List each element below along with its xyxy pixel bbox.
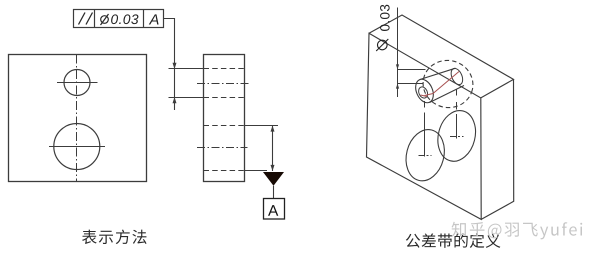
center tick upper-right hole <box>450 136 464 138</box>
parallelism symbol // <box>79 13 93 25</box>
centerline upper hole <box>197 83 249 85</box>
datum dim arrow up <box>271 126 275 132</box>
front face outline <box>367 33 482 219</box>
caption 表示方法 <box>82 230 146 245</box>
caption 公差带的定义 <box>406 233 501 248</box>
vertical centerline <box>76 55 78 182</box>
hole small (top circle) <box>64 70 90 96</box>
center tick lower-left hole <box>419 155 432 157</box>
extension line right 1 (to datum dim) <box>245 125 279 127</box>
centerline lower hole <box>197 147 248 149</box>
cylinder right end cap <box>449 67 465 87</box>
cylinder bottom side <box>430 86 465 103</box>
tolerance value 0.03 (italic) <box>111 14 138 24</box>
plate outline (front view) <box>9 55 147 182</box>
leader from frame to toleranced feature <box>164 19 175 111</box>
dimension ext line upper <box>398 69 426 71</box>
horiz centerline of small hole <box>57 82 98 84</box>
link triangle to letter box <box>273 186 275 199</box>
dim arrow up <box>396 84 399 89</box>
hidden line upper hole bottom <box>204 97 245 99</box>
leader arrow down (upper) <box>173 63 177 69</box>
hole large (bottom circle) <box>54 124 100 170</box>
actual axis (red) inside tolerance zone <box>425 72 460 96</box>
datum letter A in frame (italic) <box>149 14 159 24</box>
dim arrow down <box>396 64 399 69</box>
rotated dimension text o0.03 <box>376 5 389 51</box>
extension line right 2 (to datum dim) <box>245 170 268 172</box>
axis line lower-left hole (solid) <box>424 113 426 157</box>
watermark 知乎@羽飞yufei <box>452 222 583 240</box>
dashed hole opening ellipse <box>418 55 478 113</box>
datum letter A <box>268 205 278 216</box>
side view outline <box>204 55 245 182</box>
hidden line upper hole top <box>204 68 245 70</box>
cylinder top side <box>420 68 456 79</box>
hole ellipse upper-right <box>433 107 481 166</box>
hidden line lower hole top <box>204 125 245 127</box>
cylinder inner (far) end ellipse <box>417 86 429 100</box>
extension line upper-left 1 <box>169 68 204 70</box>
dimension line of tolerance cylinder <box>397 8 399 98</box>
axis line upper-right hole (dashes) <box>456 90 458 96</box>
extension line upper-left 2 <box>169 97 204 99</box>
diameter symbol in frame <box>101 14 109 25</box>
hole ellipse lower-left <box>401 125 450 185</box>
dimension ext line lower <box>398 83 424 85</box>
horiz centerline of large hole <box>49 146 105 148</box>
datum letter box <box>264 199 285 220</box>
datum feature triangle (filled) <box>263 172 284 186</box>
hidden line lower hole bottom <box>204 170 245 172</box>
leader arrow up (lower) <box>173 97 177 103</box>
right face outline <box>481 79 514 219</box>
axis line lower-left hole (dash) <box>424 101 426 108</box>
datum dimension line <box>272 126 274 172</box>
datum dim arrow down <box>271 165 275 171</box>
top face outline <box>369 15 514 98</box>
axis line upper-right hole (solid) <box>456 114 458 139</box>
tolerance zone cylinder: left end cap <box>412 77 437 106</box>
